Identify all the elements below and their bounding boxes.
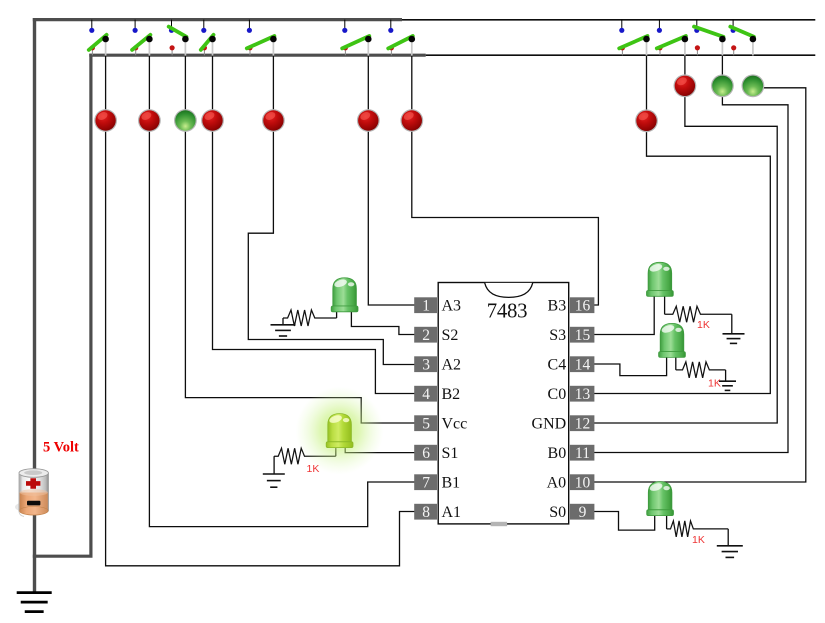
op IC U1 7483 4-bit adder body xyxy=(438,283,569,527)
svg-text:3: 3 xyxy=(422,356,430,373)
svg-text:5 Volt: 5 Volt xyxy=(43,440,79,456)
LED indicator D9 (red) xyxy=(674,74,697,97)
wire Vcc net: switch column x185 to pin 5 xyxy=(185,56,415,423)
wire C0 net: switch column x646 to pin 13 xyxy=(593,56,771,394)
wire GND bus bottom return to battery negative xyxy=(33,555,93,558)
wire C4 LED anode leg to resistor R4 xyxy=(675,353,677,370)
svg-text:15: 15 xyxy=(575,327,591,344)
svg-text:A2: A2 xyxy=(442,357,462,374)
resistor R4 (C4 LED, 1K) xyxy=(676,362,726,378)
switch SW8 (SPDT toggle, down/GND) xyxy=(619,20,650,56)
wire S0 LED anode leg to resistor R5 xyxy=(666,513,668,529)
switch SW9 (SPDT toggle, down/GND) xyxy=(657,20,688,56)
svg-text:11: 11 xyxy=(575,445,590,462)
LED indicator D7 (red) xyxy=(400,109,423,132)
svg-text:5: 5 xyxy=(422,415,430,432)
svg-text:1K: 1K xyxy=(697,319,710,331)
pin 13 pad (C0) xyxy=(570,386,595,403)
LED indicator D8 (red) xyxy=(635,109,658,132)
ground (S0 resistor) xyxy=(727,529,729,546)
svg-text:Vcc: Vcc xyxy=(442,416,468,433)
svg-text:4: 4 xyxy=(422,386,430,403)
svg-text:7483: 7483 xyxy=(487,300,527,323)
LED indicator D4 (red) xyxy=(201,109,224,132)
wire S3 LED anode leg to resistor R3 xyxy=(664,292,666,314)
wire B0 net: switch column x722 to pin 11 xyxy=(593,56,788,453)
svg-text:10: 10 xyxy=(575,474,591,491)
ground (S2 resistor) xyxy=(282,318,284,325)
svg-text:A3: A3 xyxy=(442,298,462,315)
svg-text:GND: GND xyxy=(532,416,567,433)
wire S3 net: LED D14 cathode to pin 15 xyxy=(593,294,655,335)
LED indicator D10 (green) xyxy=(711,74,734,97)
svg-text:B1: B1 xyxy=(442,475,461,492)
ground (S3 resistor) xyxy=(731,314,733,333)
resistor R5 (S0 LED, 1K) xyxy=(667,521,729,537)
wire C4 net: pin 14 to LED D15 cathode xyxy=(593,355,667,376)
wire A2 net: switch column x273 to pin 3 xyxy=(248,56,415,365)
pin 14 pad (C4) xyxy=(570,356,595,373)
svg-text:16: 16 xyxy=(575,297,591,314)
switch SW6 (SPDT toggle, down/GND) xyxy=(342,20,371,56)
wire A1 net: switch column x106 to pin 8 xyxy=(106,56,416,566)
switch SW11 (SPDT toggle, up/+5V) xyxy=(730,20,756,56)
svg-text:9: 9 xyxy=(579,504,587,521)
svg-text:C0: C0 xyxy=(548,386,567,403)
svg-text:B2: B2 xyxy=(442,386,461,403)
battery BT1 5 Volt cell xyxy=(15,469,48,517)
svg-text:1K: 1K xyxy=(708,378,721,390)
LED indicator D1 (red) xyxy=(94,109,117,132)
wire GND net: switch column x685 to pin 12 xyxy=(593,56,778,423)
switch SW10 (SPDT toggle, up/+5V) xyxy=(694,20,726,56)
LED indicator D3 (green) xyxy=(174,109,197,132)
wire S0 net: pin 9 to LED D16 cathode xyxy=(593,512,655,531)
svg-text:6: 6 xyxy=(422,445,430,462)
switch SW2 (SPDT toggle, down/GND) xyxy=(132,20,153,56)
pin 12 pad (GND) xyxy=(570,415,595,432)
switch SW3 (SPDT toggle, up/+5V) xyxy=(169,20,189,56)
pin 1 pad (A3) xyxy=(414,297,437,314)
svg-text:12: 12 xyxy=(575,415,591,432)
pin 8 pad (A1) xyxy=(414,504,437,521)
wire S2 LED anode leg to resistor R2 xyxy=(336,304,338,318)
wire S1 LED anode leg to resistor R1 xyxy=(335,444,337,456)
svg-text:13: 13 xyxy=(575,386,591,403)
svg-text:S0: S0 xyxy=(549,504,566,521)
LED indicator D2 (red) xyxy=(138,109,161,132)
pin 5 pad (Vcc) xyxy=(414,415,437,432)
svg-text:A0: A0 xyxy=(547,475,567,492)
wire A0 net: switch column x753 to pin 10 xyxy=(593,88,806,482)
wire S2 net: LED D12 cathode to pin 2 xyxy=(351,306,415,335)
svg-text:S3: S3 xyxy=(549,327,566,344)
pin 15 pad (S3) xyxy=(570,327,595,344)
wire S1 net: LED D13 cathode to pin 6 xyxy=(345,446,415,453)
resistor R3 (S3 LED, 1K) xyxy=(665,306,732,322)
LED indicator D11 (green) xyxy=(742,74,765,97)
wire GND bus left vertical drop xyxy=(89,54,92,557)
wire GND bus horizontal (thick gray segment) xyxy=(89,54,425,57)
switch SW5 (SPDT toggle, down/GND) xyxy=(247,20,277,56)
svg-text:2: 2 xyxy=(422,327,430,344)
svg-text:A1: A1 xyxy=(442,504,462,521)
ground (battery negative, main earth) xyxy=(17,591,52,594)
svg-text:8: 8 xyxy=(422,504,430,521)
pin 6 pad (S1) xyxy=(414,445,437,462)
svg-text:C4: C4 xyxy=(548,357,567,374)
resistor R1 (S1 LED, 1K) xyxy=(274,448,336,464)
pin 7 pad (B1) xyxy=(414,474,437,491)
svg-text:S2: S2 xyxy=(442,327,459,344)
wire +5V battery vertical riser xyxy=(33,18,36,470)
LED D13 (S1 output, lit) (green dome) xyxy=(296,387,384,475)
pin 2 pad (S2) xyxy=(414,327,437,344)
LED D15 (C4 carry output) (green dome) xyxy=(659,323,686,357)
svg-text:14: 14 xyxy=(575,356,591,373)
LED indicator D5 (red) xyxy=(262,109,285,132)
wire A3 net: switch column x368 to pin 1 xyxy=(368,56,415,305)
wire B2 net: switch column x212 to pin 4 xyxy=(213,56,416,394)
LED D14 (S3 output) (green dome) xyxy=(647,262,674,296)
LED D16 (S0 output) (green dome) xyxy=(647,482,674,516)
svg-text:B3: B3 xyxy=(548,298,567,315)
svg-text:1K: 1K xyxy=(692,534,705,546)
wire B3 net: switch column x412 to pin 16 xyxy=(412,56,599,305)
pin 10 pad (A0) xyxy=(570,474,595,491)
svg-text:B0: B0 xyxy=(548,445,567,462)
pin 9 pad (S0) xyxy=(570,504,595,521)
resistor R2 (S2 LED, 1K) xyxy=(283,310,337,326)
svg-text:1: 1 xyxy=(422,297,430,314)
svg-text:S1: S1 xyxy=(442,445,459,462)
LED D12 (S2 output) (green dome) xyxy=(331,278,358,312)
switch SW4 (SPDT toggle, down/GND) xyxy=(201,20,216,56)
ground (C4 resistor) xyxy=(725,370,727,381)
wire battery negative to ground xyxy=(33,513,36,592)
pin 16 pad (B3) xyxy=(570,297,595,314)
ground (S1 resistor) xyxy=(273,456,275,474)
wire B1 net: switch column x149 to pin 7 xyxy=(149,56,415,527)
wire +5V top bus (thin black extension to right switch bank) xyxy=(402,19,815,21)
wire +5V top bus (thick gray segment) xyxy=(33,18,402,21)
svg-text:7: 7 xyxy=(422,474,430,491)
switch SW7 (SPDT toggle, down/GND) xyxy=(388,20,415,56)
wire GND bus (thin black extension to right switch bank) xyxy=(426,54,816,56)
LED indicator D6 (red) xyxy=(357,109,380,132)
pin 11 pad (B0) xyxy=(570,445,595,462)
switch SW1 (SPDT toggle, down/GND) xyxy=(89,20,109,56)
pin 4 pad (B2) xyxy=(414,386,437,403)
pin 3 pad (A2) xyxy=(414,356,437,373)
